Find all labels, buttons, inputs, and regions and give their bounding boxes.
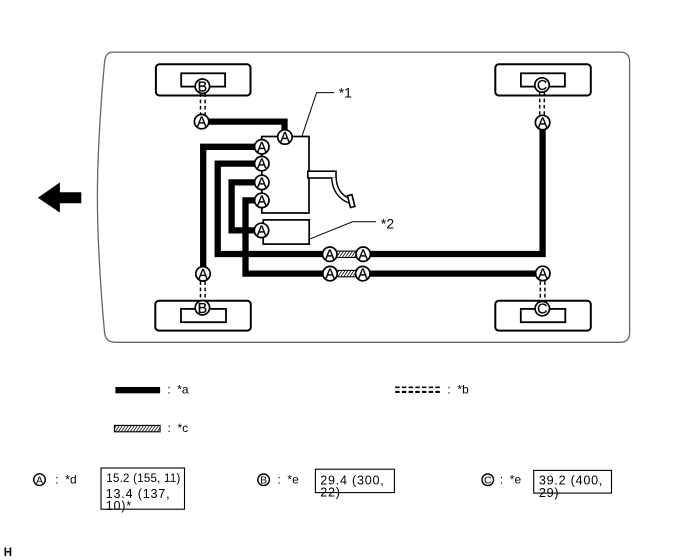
svg-text:*1: *1 [339, 85, 352, 101]
node A rear-right [536, 266, 550, 282]
legend node A [34, 474, 46, 487]
node A front-right [535, 115, 549, 131]
svg-text:10)*: 10)* [106, 499, 132, 513]
node A4 on *1 [255, 193, 269, 209]
svg-text:C: C [537, 78, 547, 94]
flexible hose section front-right line [331, 251, 362, 257]
svg-text:: *e: : *e [500, 473, 522, 487]
svg-text:B: B [198, 79, 208, 95]
svg-text:29): 29) [539, 486, 559, 500]
svg-text:22): 22) [320, 486, 340, 500]
svg-text:C: C [484, 475, 492, 487]
dashed hose rear-left (A to B) [201, 275, 206, 307]
leader line *2 [309, 222, 376, 240]
wire front-right brake line left part [218, 164, 331, 254]
wire to component *2 [232, 182, 262, 230]
svg-text:: *c: : *c [168, 421, 189, 435]
svg-text:A: A [538, 116, 548, 132]
legend solid line sample *a [115, 387, 160, 393]
pedal curved tube [334, 178, 350, 202]
node B front-left wheel [195, 79, 209, 95]
svg-text:: *e: : *e [277, 473, 299, 487]
svg-text:: *d: : *d [55, 472, 76, 486]
svg-text:A: A [257, 194, 267, 210]
wire rear-right brake line right part [362, 270, 543, 276]
svg-text:A: A [257, 140, 267, 156]
svg-text:*2: *2 [381, 215, 394, 231]
front-left wheel [156, 64, 251, 95]
svg-text:A: A [538, 267, 548, 283]
node A hose1 left [323, 247, 337, 263]
svg-text:: *a: : *a [167, 383, 189, 397]
node A on *2 [254, 223, 268, 239]
vehicle body outline [97, 52, 629, 342]
svg-text:A: A [198, 267, 208, 283]
dashed hose front-left (B to A) [201, 87, 206, 120]
node B rear-left wheel [195, 301, 209, 317]
rear-left wheel [155, 301, 251, 331]
svg-text:A: A [325, 267, 335, 283]
rear-right wheel [495, 301, 591, 331]
dashed hose rear-right (A to C) [540, 275, 545, 308]
front-right wheel [495, 64, 591, 95]
leader line *1 [302, 93, 334, 137]
svg-text:A: A [257, 176, 267, 192]
wire rear-right brake line left part [246, 200, 332, 273]
front direction arrow [38, 182, 81, 212]
node A1 on *1 [255, 140, 269, 156]
svg-text:A: A [280, 130, 290, 146]
svg-text:B: B [260, 475, 267, 487]
node A hose2 right [356, 266, 370, 282]
front-left wheel inner [181, 73, 225, 86]
node C front-right wheel [535, 78, 549, 94]
wire front-right brake line right part [362, 123, 543, 255]
svg-text:H: H [4, 547, 12, 559]
node A hose1 right [356, 247, 370, 263]
legend dashed line sample *b [395, 386, 441, 388]
node C rear-right wheel [535, 301, 549, 317]
component *2 box [263, 220, 309, 244]
wire front-left brake line [202, 122, 285, 137]
pedal arm bar [308, 171, 336, 178]
svg-text:: *b: : *b [447, 383, 469, 397]
svg-text:A: A [358, 247, 368, 263]
legend node C [482, 474, 494, 487]
svg-text:A: A [358, 267, 368, 283]
svg-text:15.2 (155, 11): 15.2 (155, 11) [106, 473, 180, 485]
svg-text:A: A [325, 247, 335, 263]
pedal pad [347, 195, 354, 208]
torque spec box B [315, 469, 394, 492]
dashed hose front-right (C to A) [540, 86, 545, 121]
svg-text:A: A [197, 115, 207, 131]
svg-text:B: B [198, 301, 208, 317]
node A at top of *1 [278, 130, 292, 146]
svg-text:A: A [36, 474, 43, 486]
node A hose2 left [323, 266, 337, 282]
flexible hose section rear-right line [331, 270, 362, 276]
torque spec box A [101, 468, 185, 509]
front-right wheel inner [521, 73, 565, 86]
component *1 brake actuator box [262, 137, 309, 214]
legend hose sample *c [114, 425, 160, 431]
torque spec box C [534, 470, 612, 493]
rear-left wheel inner [181, 309, 226, 322]
svg-text:A: A [257, 224, 267, 240]
legend node B [258, 474, 270, 487]
node A2 on *1 [255, 156, 269, 172]
svg-text:A: A [257, 157, 267, 173]
wire rear-left brake line [203, 147, 262, 274]
svg-text:C: C [537, 302, 547, 318]
node A3 on *1 [255, 175, 269, 191]
node A front-left [194, 114, 208, 130]
node A rear-left [196, 267, 210, 283]
rear-right wheel inner [521, 309, 566, 322]
